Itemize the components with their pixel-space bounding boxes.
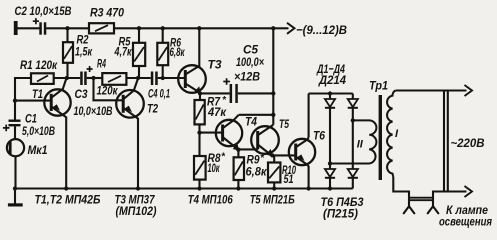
wire mid rail R1 to C3	[54, 77, 80, 79]
svg-text:(МП102): (МП102)	[116, 204, 157, 218]
svg-text:С3: С3	[75, 87, 88, 101]
wire left vertical from R1 down to T1 base and C1	[15, 78, 31, 120]
svg-text:Мк1: Мк1	[28, 145, 48, 157]
svg-text:Т3: Т3	[208, 58, 222, 72]
wire C4 to T3 base	[158, 77, 186, 79]
svg-text:6,8к: 6,8к	[170, 45, 185, 59]
wire top rail R3 to arrow junction	[114, 27, 273, 29]
svg-text:4,7к: 4,7к	[114, 45, 132, 59]
svg-text:−(9...12)В: −(9...12)В	[296, 23, 347, 37]
wire R7 junction down to R8	[198, 133, 200, 156]
capacitor C4	[151, 72, 158, 86]
diode D4 (bridge bottom-right)	[348, 169, 358, 189]
capacitor C1	[3, 120, 21, 140]
diode D2 (bridge top-right)	[348, 94, 358, 170]
svg-text:Тр1: Тр1	[369, 79, 388, 93]
svg-text:×12В: ×12В	[234, 70, 260, 84]
transistor T2	[116, 79, 144, 189]
wire winding I bottom to plug	[393, 177, 409, 206]
svg-text:С1: С1	[25, 114, 37, 126]
transistor T1	[15, 79, 71, 189]
svg-text:I: I	[395, 128, 399, 140]
svg-text:6,8к: 6,8к	[246, 165, 268, 179]
wire bridge top rail	[309, 92, 353, 94]
wire bridge middle AC wire	[330, 162, 354, 164]
svg-text:R4: R4	[97, 57, 106, 71]
svg-text:R1 120к: R1 120к	[20, 58, 58, 72]
wire T4 emitter to T5 base	[238, 148, 257, 150]
svg-text:С4 0,1: С4 0,1	[148, 87, 170, 101]
transistor T6	[289, 138, 315, 189]
svg-text:Д214: Д214	[318, 73, 346, 87]
diode D1 (bridge top-left)	[325, 94, 335, 164]
svg-text:Т4: Т4	[245, 115, 257, 129]
svg-text:10,0×10В: 10,0×10В	[74, 104, 113, 118]
wire R4 to C4	[126, 77, 150, 79]
wire C3 to R4	[87, 77, 103, 79]
transformer Tr1 winding II	[353, 120, 377, 163]
wire R7 bottom junction to T4 base	[200, 132, 223, 134]
svg-text:Т5 МП21Б: Т5 МП21Б	[250, 193, 295, 207]
wire 220V bottom	[433, 192, 467, 207]
capacitor C5	[223, 78, 238, 103]
wire T4 emitter down to R9	[237, 150, 239, 158]
capacitor C2	[33, 18, 47, 35]
wire T5 emitter down to R10	[273, 155, 275, 162]
wire C5 to vertical drop line	[238, 92, 273, 94]
caption transistor types row	[35, 193, 364, 221]
node input terminal top-left	[14, 21, 18, 35]
svg-text:120к: 120к	[97, 84, 119, 98]
transistor T4	[216, 115, 242, 151]
wire 220V top	[396, 89, 467, 91]
wire arrow to -(9..12)V output	[273, 27, 288, 29]
resistor R7	[195, 100, 205, 133]
svg-text:Т5: Т5	[279, 117, 289, 131]
wire top rail C2 to R3 with R2 tap	[46, 27, 89, 29]
svg-text:1,5к: 1,5к	[75, 45, 93, 59]
svg-text:51: 51	[284, 172, 294, 186]
wire T5 emitter to T6 base	[272, 154, 296, 156]
svg-text:Т1,Т2 МП42Б: Т1,Т2 МП42Б	[35, 193, 101, 207]
node bottom terminal	[14, 189, 16, 204]
wire T6 collector up to bridge top	[308, 94, 310, 138]
transistor T5	[251, 125, 279, 157]
svg-text:R3 470: R3 470	[90, 6, 124, 20]
resistor R3	[89, 23, 114, 33]
svg-text:Т1: Т1	[32, 87, 43, 101]
svg-text:47к: 47к	[207, 105, 227, 119]
resistor R8	[194, 156, 206, 189]
wire T2 base tap	[94, 78, 117, 100]
diode D3 (bridge bottom-left)	[325, 164, 335, 189]
resistor R9	[234, 157, 244, 188]
svg-text:К лампе: К лампе	[446, 205, 489, 217]
svg-text:С2 10,0×15В: С2 10,0×15В	[15, 4, 72, 18]
wire bottom rail (common)	[15, 187, 353, 189]
svg-text:Т2: Т2	[147, 102, 158, 116]
svg-text:*: *	[221, 152, 226, 163]
microphone Mk1	[7, 139, 24, 188]
svg-text:II: II	[357, 139, 364, 151]
svg-text:10к: 10к	[208, 161, 220, 175]
wire T3 emitter to C5	[200, 92, 230, 94]
transformer Tr1 core	[379, 95, 382, 180]
resistor R5	[133, 28, 145, 78]
resistor R1	[31, 73, 54, 84]
capacitor C3	[80, 66, 92, 85]
svg-text:освещения: освещения	[439, 216, 492, 228]
resistor R10	[268, 163, 280, 189]
resistor R2	[63, 28, 73, 78]
svg-text:~220В: ~220В	[451, 136, 485, 150]
wire T4 collector to vertical drop	[239, 114, 274, 116]
plug pin left	[403, 206, 415, 214]
resistor R4	[102, 73, 126, 85]
svg-text:(П215): (П215)	[323, 207, 358, 221]
wire vertical drop from top rail to T5 collector	[272, 28, 274, 125]
wire 220V vertical pair	[443, 91, 445, 192]
plug cord double line	[409, 197, 433, 199]
plug pin right	[427, 206, 439, 214]
transformer Tr1 winding I	[387, 91, 395, 178]
svg-text:100,0×: 100,0×	[236, 55, 264, 69]
svg-text:Т6: Т6	[313, 129, 325, 143]
svg-text:Т4 МП106: Т4 МП106	[188, 193, 233, 207]
transistor T3	[178, 28, 206, 100]
wire top rail segment from input terminal to C2	[17, 27, 40, 29]
resistor R6	[157, 28, 168, 78]
svg-text:5,0×10В: 5,0×10В	[22, 126, 55, 138]
